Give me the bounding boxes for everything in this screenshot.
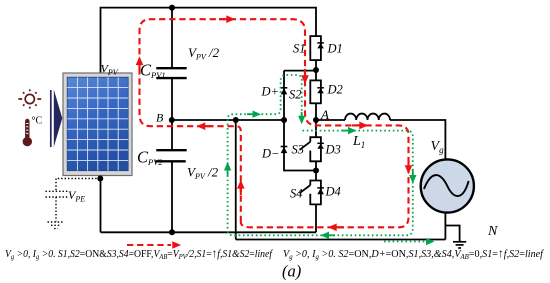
node B-wire / N-link junction (233, 117, 239, 123)
svg-text:(a): (a) (282, 262, 301, 281)
svg-text:Vg >0, Ig >0. S2=ON,D+=ON,S1,S: Vg >0, Ig >0. S2=ON,D+=ON,S1,S3,&S4,VAB=… (283, 246, 545, 261)
wire top rail from PV+ to stack top (101, 8, 317, 73)
red arrow down at Vg (407, 159, 409, 166)
wire Vg bottom to N rail (444, 213, 446, 240)
svg-text:D1: D1 (327, 42, 343, 56)
wire D+ top link (284, 70, 316, 72)
svg-text:S2: S2 (289, 88, 302, 102)
wire N rail (236, 239, 446, 241)
svg-text:S1: S1 (293, 42, 306, 56)
svg-text:VPE: VPE (68, 188, 85, 204)
wire S4 to DC- rail (315, 204, 317, 232)
green arrow right toward D+ (247, 113, 254, 115)
svg-text:S3: S3 (292, 143, 305, 157)
svg-text:VPV /2: VPV /2 (188, 45, 220, 62)
legend green dotted arrow (384, 241, 426, 243)
svg-text:Vg: Vg (431, 139, 445, 155)
node: top rail / CPV1 junction (169, 5, 175, 11)
svg-text:D−: D− (261, 147, 279, 161)
switch S4 (open) with antiparallel diode D4 (300, 181, 321, 205)
red arrow up on left leg (138, 64, 140, 72)
wire S1 to S2 (315, 60, 317, 80)
node B (169, 117, 175, 123)
clamp diode D- branch wire (284, 120, 316, 171)
wire node B horizontal to clamp branch (172, 119, 284, 121)
wire CPV2 bottom lead to DC- rail (171, 161, 173, 232)
node S3-S4 junction (313, 168, 319, 174)
red arrow left on bottom leg (336, 226, 344, 228)
wire node A to inductor (316, 119, 345, 121)
wire S2 to node A (315, 103, 317, 120)
svg-text:D+: D+ (261, 85, 279, 99)
green arrow right after A (342, 130, 349, 132)
green arrow up on left leg (227, 170, 229, 176)
clamp diode D- (281, 147, 288, 153)
node CPV2 / DC- rail junction (169, 229, 175, 235)
wire B to N link (vertical) (235, 120, 237, 240)
wire ground stub (445, 226, 459, 242)
red arrow down through S1 leg (304, 69, 306, 76)
node PV- / VPE tap (97, 176, 103, 182)
svg-text:B: B (156, 111, 164, 125)
capacitor CPV2 (155, 150, 186, 161)
svg-text:D2: D2 (327, 83, 343, 97)
wire S3 to S4 (315, 161, 317, 180)
legend red dashed arrow (127, 244, 171, 246)
svg-text:CPV1: CPV1 (140, 61, 166, 81)
switch S2 (closed) with antiparallel diode D2 (310, 80, 321, 103)
svg-text:Vg >0, Ig >0. S1,S2=ON&S3,S4=O: Vg >0, Ig >0. S1,S2=ON&S3,S4=OFF,VAB=VPV… (5, 246, 274, 261)
svg-text:D3: D3 (325, 143, 341, 157)
PV module frame (63, 73, 132, 176)
wire node A to S3 (315, 120, 317, 137)
wire node B to CPV2 (171, 120, 173, 150)
clamp diode D+ (281, 88, 288, 94)
thermometer icon (23, 119, 32, 147)
parasitic capacitance VPE (dotted) (46, 179, 101, 229)
node A (313, 117, 319, 123)
capacitor CPV1 (156, 68, 186, 78)
red arrow left on B return leg (205, 125, 213, 127)
wire PV- down to DC- rail (100, 176, 102, 233)
ground symbol (453, 242, 466, 248)
svg-text:N: N (487, 224, 498, 239)
PV module cells (67, 77, 128, 171)
svg-text:°C: °C (32, 116, 43, 127)
red dashed current path loop (140, 19, 409, 227)
sun icon (18, 89, 41, 108)
red arrow right below A (352, 124, 360, 126)
red arrow up on B-N leg (240, 188, 242, 195)
wire CPV1 top lead (171, 8, 173, 69)
node S1-S2 junction (313, 67, 319, 73)
svg-text:VPV /2: VPV /2 (187, 165, 219, 182)
wire DC- rail (101, 231, 317, 233)
green arrow down into node A (301, 112, 303, 117)
svg-text:S4: S4 (290, 187, 303, 201)
AC grid source Vg (421, 159, 474, 212)
switch S3 (open) with antiparallel diode D3 (300, 137, 321, 161)
wire inductor to Vg (390, 120, 445, 160)
svg-text:L1: L1 (352, 134, 365, 150)
node B-wire / clamp junction (281, 117, 287, 123)
red arrow right on top leg (219, 18, 227, 20)
green arrow down at Vg (412, 169, 414, 176)
irradiance arrow (50, 90, 52, 147)
clamp diode D+ branch wire (283, 71, 285, 120)
sine wave inside Vg (424, 175, 469, 196)
svg-text:VPV: VPV (101, 62, 119, 78)
green dotted current path loop (228, 75, 413, 235)
svg-text:D4: D4 (325, 185, 341, 199)
inductor L1 (345, 114, 390, 120)
wire CPV1 bottom lead to node B (171, 78, 173, 120)
green arrow left on bottom leg (328, 234, 335, 236)
switch S1 (closed) with antiparallel diode D1 (310, 36, 321, 60)
